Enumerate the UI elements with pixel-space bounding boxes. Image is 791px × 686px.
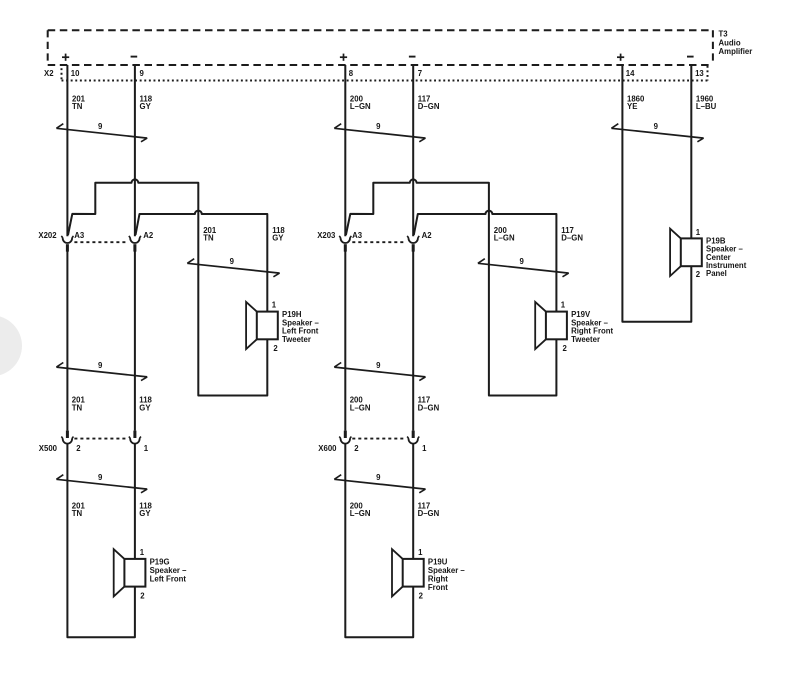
svg-text:TN: TN — [72, 102, 83, 111]
label P19V speaker text — [571, 310, 613, 344]
branch wire from X202 A3 up and over to tweeter feed — [68, 179, 267, 395]
connector X202 dashed body line — [74, 241, 128, 243]
wire 118 GY from X202 to X500 — [134, 251, 136, 430]
svg-text:Front: Front — [428, 583, 448, 592]
svg-text:Panel: Panel — [706, 269, 727, 278]
label 117 D–GN middle run — [418, 396, 440, 413]
svg-text:TN: TN — [203, 234, 214, 243]
wire 1860 YE from pin 14 down and around to P19B pin 2 — [622, 65, 691, 322]
connector X500 terminal 2 — [61, 431, 73, 444]
speaker P19V pin 2 — [563, 344, 568, 353]
svg-text:A2: A2 — [422, 231, 433, 240]
wire 117 D–GN from pin 7 to X203 A2 — [412, 65, 414, 236]
label P19G speaker text — [150, 558, 188, 584]
label 1960 L-BU — [696, 94, 717, 111]
svg-text:GY: GY — [140, 102, 152, 111]
svg-text:2: 2 — [140, 591, 145, 600]
svg-text:7: 7 — [418, 69, 422, 78]
label X202 — [38, 231, 57, 240]
speaker P19B pin 2 — [696, 270, 701, 279]
wire 201 TN from pin 10 to X202 A3 — [66, 65, 68, 236]
svg-text:9: 9 — [654, 122, 659, 131]
connector X500 dashed body line — [74, 438, 128, 440]
svg-text:A3: A3 — [352, 231, 363, 240]
speaker P19G pin 1 — [140, 548, 145, 557]
svg-text:8: 8 — [349, 69, 354, 78]
gauge label 9 — [98, 122, 103, 131]
svg-text:9: 9 — [376, 473, 381, 482]
speaker P19U pin 2 — [419, 591, 424, 600]
speaker P19U symbol — [392, 549, 424, 596]
speaker P19V symbol — [535, 302, 567, 349]
svg-text:1: 1 — [422, 444, 427, 453]
wire gauge arrow 9 lower run — [56, 475, 147, 493]
scan artifact gray blob — [0, 315, 22, 376]
svg-text:9: 9 — [376, 122, 381, 131]
svg-text:1: 1 — [144, 444, 149, 453]
speaker P19B pin 1 — [696, 228, 701, 237]
tweeter feed wire label 201 TN — [203, 226, 217, 243]
wire 117 D–GN from X203 to X600 — [412, 251, 414, 430]
svg-text:L–GN: L–GN — [494, 234, 515, 243]
wire gauge arrow 9 middle run — [56, 363, 147, 381]
svg-text:9: 9 — [230, 257, 235, 266]
label X500 — [39, 444, 58, 453]
svg-text:YE: YE — [627, 102, 637, 111]
connector X203 terminal A3 — [339, 236, 351, 252]
svg-text:L–GN: L–GN — [350, 404, 371, 413]
pin 7 — [418, 69, 422, 78]
svg-text:14: 14 — [626, 69, 635, 78]
wire gauge arrow 9 center pair — [611, 124, 703, 142]
connector X203 terminal A2 — [407, 236, 419, 252]
gauge label 9 — [376, 473, 381, 482]
tweeter feed wire label 200 L–GN — [494, 226, 515, 243]
svg-text:T3: T3 — [719, 30, 729, 39]
label X600 — [318, 444, 337, 453]
label 201 TN — [72, 94, 86, 111]
label 117 D–GN — [418, 94, 440, 111]
svg-text:2: 2 — [354, 444, 359, 453]
gauge label 9 — [230, 257, 235, 266]
wire 200 L–GN from X600 down around to speaker — [345, 444, 413, 637]
svg-text:1: 1 — [140, 548, 145, 557]
svg-text:1: 1 — [272, 300, 277, 309]
connector X2 dotted line — [62, 66, 708, 81]
svg-text:9: 9 — [98, 122, 103, 131]
wire gauge arrow 9 — [56, 124, 147, 142]
svg-text:9: 9 — [376, 361, 381, 370]
label T3 Audio Amplifier — [719, 30, 753, 56]
label A2 — [422, 231, 433, 240]
speaker P19B symbol — [670, 229, 702, 276]
label 201 TN middle run — [72, 396, 86, 413]
label X2 — [44, 69, 54, 78]
label A2 — [143, 231, 154, 240]
tweeter feed wire label 117 D–GN — [561, 226, 583, 243]
connector X203 dashed body line — [352, 241, 406, 243]
svg-text:2: 2 — [273, 344, 278, 353]
label A3 — [74, 231, 85, 240]
svg-text:D–GN: D–GN — [418, 102, 440, 111]
svg-text:Left Front: Left Front — [150, 575, 187, 584]
svg-text:X202: X202 — [38, 231, 57, 240]
label 117 D–GN lower run — [418, 501, 440, 518]
svg-text:D–GN: D–GN — [561, 234, 583, 243]
pin 8 — [349, 69, 354, 78]
label pin 1 of X600 — [422, 444, 427, 453]
svg-text:2: 2 — [696, 270, 701, 279]
speaker P19H pin 1 — [272, 300, 277, 309]
connector X202 terminal A3 — [61, 236, 73, 252]
gauge label 9 — [98, 361, 103, 370]
svg-text:TN: TN — [72, 404, 83, 413]
speaker P19G symbol — [114, 549, 146, 596]
pin 13 — [695, 69, 704, 78]
connector X600 dashed body line — [352, 438, 406, 440]
svg-text:13: 13 — [695, 69, 704, 78]
svg-text:Audio: Audio — [719, 38, 741, 47]
wire 200 L–GN from pin 8 to X203 A3 — [344, 65, 346, 236]
svg-text:2: 2 — [76, 444, 81, 453]
svg-text:9: 9 — [140, 69, 145, 78]
svg-text:X500: X500 — [39, 444, 58, 453]
connector X600 terminal 2 — [339, 431, 351, 444]
speaker P19H symbol — [246, 302, 278, 349]
gauge label 9 — [654, 122, 659, 131]
wire 1960 L-BU from pin 13 to P19B pin 1 — [690, 65, 692, 238]
svg-text:Tweeter: Tweeter — [282, 335, 311, 344]
wire 200 L–GN from X203 to X600 — [344, 251, 346, 430]
amp output - terminal for X203 circuit — [409, 56, 416, 58]
tweeter feed wire label 118 GY — [272, 226, 285, 243]
wire gauge arrow 9 — [334, 124, 425, 142]
label 1860 YE — [627, 94, 645, 111]
amp output + terminal for X203 circuit — [340, 54, 347, 61]
svg-text:1: 1 — [696, 228, 701, 237]
amplifier T3 dashed outline box — [48, 30, 713, 65]
svg-text:2: 2 — [419, 591, 424, 600]
svg-text:X600: X600 — [318, 444, 337, 453]
gauge label 9 — [376, 122, 381, 131]
label P19B speaker text — [706, 237, 747, 278]
label pin 2 of X600 — [354, 444, 359, 453]
branch wire from X203 A2 over to tweeter feed — [414, 211, 557, 312]
label 118 GY middle run — [139, 396, 152, 413]
svg-text:9: 9 — [519, 257, 524, 266]
svg-text:A2: A2 — [143, 231, 154, 240]
svg-text:TN: TN — [72, 509, 83, 518]
wire 118 GY from pin 9 to X202 A2 — [134, 65, 136, 236]
label pin 1 of X500 — [144, 444, 149, 453]
svg-text:Tweeter: Tweeter — [571, 335, 600, 344]
connector X500 terminal 1 — [129, 431, 141, 444]
svg-text:L–GN: L–GN — [350, 102, 371, 111]
svg-text:X203: X203 — [317, 231, 336, 240]
svg-text:10: 10 — [71, 69, 80, 78]
label A3 — [352, 231, 363, 240]
speaker P19H pin 2 — [273, 344, 278, 353]
pin 9 — [140, 69, 145, 78]
amp output + terminal center channel — [617, 54, 624, 61]
svg-text:A3: A3 — [74, 231, 85, 240]
wire gauge arrow 9 middle run — [334, 363, 425, 381]
wire 118 GY from X500 to speaker pin 1 — [134, 444, 136, 559]
label X203 — [317, 231, 336, 240]
wire 201 TN from X500 down around to speaker — [67, 444, 134, 637]
pin 10 — [71, 69, 80, 78]
svg-text:X2: X2 — [44, 69, 54, 78]
wire gauge arrow 9 tweeter pair — [187, 259, 279, 277]
svg-text:9: 9 — [98, 473, 103, 482]
connector X600 terminal 1 — [407, 431, 419, 444]
svg-text:9: 9 — [98, 361, 103, 370]
speaker P19U pin 1 — [418, 548, 423, 557]
wire gauge arrow 9 tweeter pair — [478, 259, 569, 277]
label 118 GY lower run — [139, 501, 152, 518]
amp output - terminal center channel — [687, 56, 694, 58]
amp output - terminal for X202 circuit — [131, 56, 138, 58]
gauge label 9 — [376, 361, 381, 370]
wire gauge arrow 9 lower run — [334, 475, 425, 493]
label P19U speaker text — [428, 558, 466, 592]
svg-text:Amplifier: Amplifier — [719, 47, 753, 56]
svg-text:GY: GY — [272, 234, 284, 243]
label P19H speaker text — [282, 310, 320, 344]
svg-text:2: 2 — [563, 344, 568, 353]
gauge label 9 — [519, 257, 524, 266]
gauge label 9 — [98, 473, 103, 482]
svg-text:L–BU: L–BU — [696, 102, 717, 111]
svg-text:1: 1 — [561, 300, 566, 309]
label pin 2 of X500 — [76, 444, 81, 453]
connector X202 terminal A2 — [129, 236, 141, 252]
branch wire from X202 A2 over to tweeter feed — [136, 211, 268, 312]
svg-text:D–GN: D–GN — [418, 509, 440, 518]
label 118 GY — [140, 94, 153, 111]
wire 201 TN from X202 to X500 — [66, 251, 68, 430]
speaker P19G pin 2 — [140, 591, 145, 600]
label 200 L–GN lower run — [350, 501, 371, 518]
amp output + terminal for X202 circuit — [62, 54, 69, 61]
branch wire from X203 A3 up and over to tweeter feed — [346, 179, 557, 395]
svg-text:GY: GY — [139, 509, 151, 518]
label 200 L–GN middle run — [350, 396, 371, 413]
svg-text:GY: GY — [139, 404, 151, 413]
label 200 L–GN — [350, 94, 371, 111]
label 201 TN lower run — [72, 501, 86, 518]
svg-text:1: 1 — [418, 548, 423, 557]
speaker P19V pin 1 — [561, 300, 566, 309]
svg-text:D–GN: D–GN — [418, 404, 440, 413]
pin 14 — [626, 69, 635, 78]
wire 117 D–GN from X600 to speaker pin 1 — [412, 444, 414, 559]
svg-text:L–GN: L–GN — [350, 509, 371, 518]
